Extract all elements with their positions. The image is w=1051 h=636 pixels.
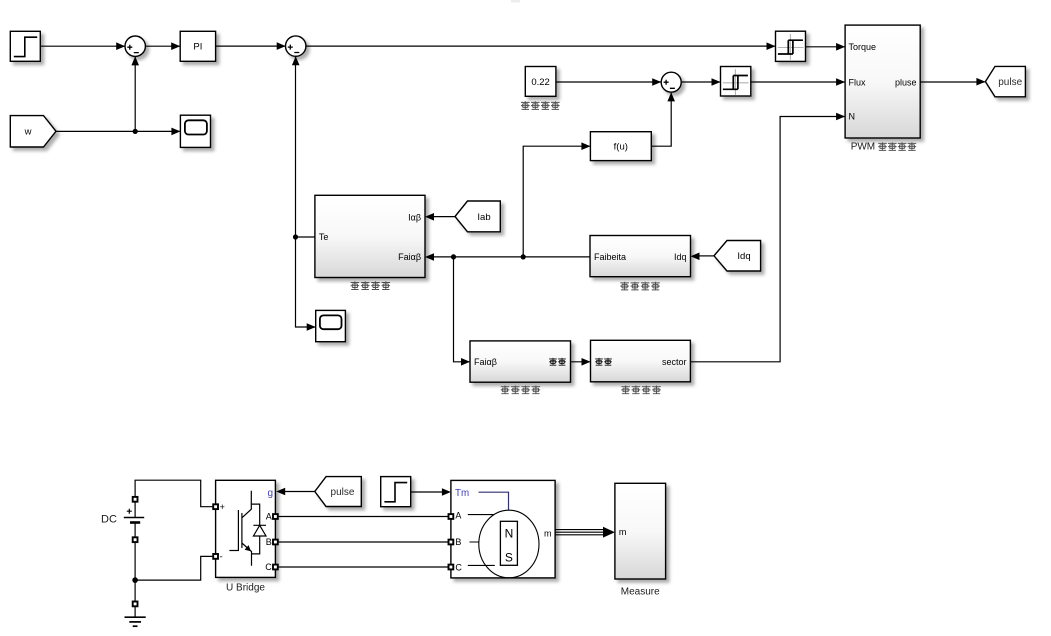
arrowhead into Tm — [442, 488, 451, 496]
wire sector output to PWM N input — [690, 117, 844, 362]
fcn block f(u) — [590, 132, 651, 161]
svg-text:-: - — [220, 552, 223, 562]
port square ground — [133, 602, 138, 607]
wire sum2 to relay1 — [306, 45, 775, 47]
svg-text:m: m — [544, 528, 552, 538]
label angle calculation (Chinese) — [501, 386, 541, 395]
motor rotor circle — [479, 510, 539, 578]
svg-text:m: m — [619, 527, 627, 537]
wire Idq port to flux-model Idq input — [699, 255, 715, 257]
svg-text:N: N — [505, 527, 514, 541]
pin angle (Chinese) — [595, 358, 612, 366]
svg-text:Iab: Iab — [477, 212, 490, 223]
svg-text:B: B — [266, 537, 272, 547]
subsystem torque estimation — [315, 195, 425, 277]
wire node up to sum2 minus — [295, 57, 297, 237]
inport pulse (mirrored) — [315, 477, 362, 507]
junction dot on Te node — [293, 234, 298, 239]
wire const 0.22 to sum3 — [556, 81, 661, 83]
step source block (speed step) — [10, 31, 40, 61]
svg-text:PI: PI — [193, 42, 202, 53]
svg-text:PWM: PWM — [851, 142, 875, 153]
wire PWM pluse to outport pulse — [920, 81, 985, 83]
junction dot Faiab to angle-calc — [451, 254, 456, 259]
subsystem flux model — [590, 236, 691, 277]
label flux model (Chinese) — [620, 282, 660, 291]
junction dot DC minus node — [132, 577, 138, 583]
svg-text:w: w — [24, 127, 32, 138]
DC voltage source battery — [101, 509, 144, 526]
wire step2 to motor Tm — [411, 491, 442, 493]
svg-text:Te: Te — [319, 232, 329, 242]
wire sum3 to relay2 — [681, 81, 720, 83]
svg-text:Torque: Torque — [849, 42, 877, 52]
magnet N S — [500, 521, 517, 565]
svg-text:pulse: pulse — [998, 77, 1022, 88]
arrowhead into scope2 — [307, 323, 316, 331]
wire sum1 to PI — [145, 45, 179, 47]
svg-text:S: S — [505, 551, 513, 565]
wire pulse inport to U Bridge g — [285, 491, 315, 493]
wire phase C U Bridge to motor — [275, 566, 451, 568]
svg-text:pluse: pluse — [895, 78, 917, 88]
port square motor B — [449, 540, 454, 545]
arrowhead up into sum3 minus — [667, 92, 675, 101]
inport Iab (mirrored) — [455, 201, 500, 232]
svg-text:Faiαβ: Faiαβ — [474, 357, 497, 367]
scope block scope1 — [180, 115, 210, 147]
outport pulse — [985, 66, 1025, 96]
inport w — [10, 116, 56, 147]
wire DC minus rail to U Bridge minus — [135, 556, 212, 580]
physical port squares — [133, 497, 454, 606]
svg-text:f(u): f(u) — [614, 142, 628, 153]
port square DC top — [133, 497, 138, 502]
port square U Bridge C — [273, 565, 278, 570]
svg-text:pulse: pulse — [331, 487, 355, 498]
junction dot on w line — [133, 129, 138, 134]
arrowhead into sector-judge — [582, 358, 591, 366]
svg-text:Tm: Tm — [455, 488, 469, 499]
svg-text:C: C — [455, 563, 462, 573]
label torque estimation (Chinese) — [351, 281, 391, 290]
arrowhead into sum2 — [277, 42, 286, 50]
svg-text:U Bridge: U Bridge — [226, 583, 265, 594]
wire DC plus rail to U Bridge plus — [135, 480, 212, 507]
subsystem angle calculation — [470, 341, 571, 382]
label PWM pulse generation (Chinese) — [851, 142, 917, 153]
step source block step2 — [381, 477, 411, 507]
arrowhead left into Ialphabeta — [425, 213, 434, 221]
subsystem PWM pulse generation — [845, 25, 920, 138]
label flux reference (Chinese) — [521, 101, 560, 110]
pin angle (Chinese) — [549, 358, 566, 366]
gain block PI — [180, 31, 215, 61]
arrowhead left into Faiab — [425, 253, 434, 261]
port square motor C — [449, 565, 454, 570]
wire node down to scope2 — [296, 237, 316, 327]
scope block Measure — [615, 483, 666, 579]
IGBT with antiparallel diode icon — [229, 491, 266, 566]
arrowhead into sum1 — [116, 42, 125, 50]
arrowhead left into g — [276, 488, 285, 496]
sum block sum3 — [661, 72, 681, 92]
inport Idq (mirrored) — [714, 241, 761, 272]
IGBT emitter arrowhead — [245, 545, 251, 551]
port square U Bridge A — [273, 514, 278, 519]
port square U Bridge plus — [213, 504, 218, 509]
title-bar remnant smudge top center — [511, 0, 520, 3]
svg-text:Idq: Idq — [674, 252, 687, 262]
wire PI to sum2 — [216, 45, 285, 47]
svg-text:Measure: Measure — [621, 587, 660, 598]
subsystem sector judgment — [591, 340, 691, 382]
svg-text:+: + — [220, 502, 225, 512]
wire relay1 to PWM Torque — [806, 46, 845, 48]
svg-text:sector: sector — [662, 357, 687, 367]
port square U Bridge B — [273, 540, 278, 545]
relay block relay2 — [721, 67, 751, 97]
svg-text:A: A — [455, 511, 461, 521]
arrowhead into angle-calc — [461, 358, 470, 366]
junction dot Faiab to f(u) — [521, 254, 526, 259]
wire Faibeita output to Faiab input — [433, 256, 590, 258]
arrowhead up into sum2 minus — [292, 56, 300, 65]
svg-text:Flux: Flux — [849, 78, 867, 88]
wire f(u) to sum3 minus — [651, 93, 671, 146]
svg-text:B: B — [455, 537, 461, 547]
svg-text:Idq: Idq — [737, 251, 750, 262]
wire Faiab node up to f(u) input — [523, 146, 590, 257]
wire phase A U Bridge to motor — [275, 516, 451, 518]
sum block sum2 — [286, 36, 306, 56]
arrowhead left into Idq input — [691, 253, 700, 261]
svg-text:N: N — [849, 112, 856, 122]
arrowhead up into sum1 minus — [131, 56, 139, 65]
arrowhead into PWM Torque — [836, 43, 845, 51]
svg-text:DC: DC — [101, 514, 117, 526]
label sector judgment (Chinese) — [621, 386, 661, 395]
svg-text:0.22: 0.22 — [531, 77, 550, 88]
wire w to scope1 — [56, 130, 180, 132]
arrowhead bus into Measure — [603, 527, 615, 538]
port square U Bridge minus — [213, 554, 218, 559]
wire step1 to sum1 — [40, 45, 125, 47]
PMSM motor block — [451, 480, 555, 578]
arrowhead into outport pulse — [976, 78, 985, 86]
constant block 0.22 — [525, 67, 556, 97]
motor phase leads — [468, 515, 495, 566]
wire junction w up to sum1 minus — [134, 57, 136, 131]
arrowhead into PI — [171, 42, 180, 50]
wire Faiab node down to angle-calc input — [454, 257, 470, 362]
arrowhead into sum3 — [652, 78, 661, 86]
port square DC bottom — [133, 537, 138, 542]
wire relay2 to PWM Flux — [751, 81, 845, 83]
relay block relay1 — [776, 31, 806, 61]
port square motor A — [449, 514, 454, 519]
wire battery vertical — [134, 496, 136, 604]
scope block scope2 — [316, 310, 346, 341]
svg-text:A: A — [266, 512, 272, 522]
svg-text:C: C — [265, 562, 272, 572]
svg-text:g: g — [267, 488, 273, 499]
subsystem U Bridge — [216, 480, 276, 577]
wire Iab to Ialphabeta input — [433, 216, 455, 218]
wire phase B U Bridge to motor — [275, 541, 451, 543]
wire angle-calc to sector-judge — [571, 361, 590, 363]
bus signal motor m to Measure — [555, 530, 605, 535]
svg-text:Faibeita: Faibeita — [594, 252, 626, 262]
svg-text:Iαβ: Iαβ — [408, 212, 421, 222]
arrowhead into scope1 — [171, 128, 180, 136]
arrowhead into PWM Flux — [836, 78, 845, 86]
sum block sum1 — [125, 36, 145, 56]
motor icon Tm lead (blue) — [479, 492, 509, 510]
wire Te to node — [296, 236, 315, 238]
ground symbol — [125, 604, 146, 626]
arrowhead into relay1 — [767, 42, 776, 50]
svg-text:Faiαβ: Faiαβ — [398, 252, 421, 262]
arrowhead into PWM N — [836, 113, 845, 121]
arrowhead into f(u) — [581, 142, 590, 150]
arrowhead into relay2 — [712, 78, 721, 86]
